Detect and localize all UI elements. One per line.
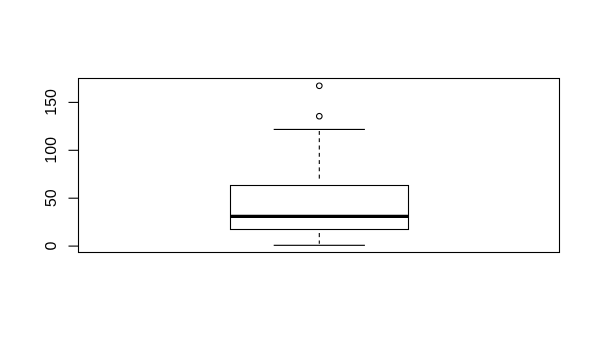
IQR box [231, 186, 409, 230]
y-axis tick 150 [69, 101, 79, 103]
lower whisker cap [274, 244, 365, 246]
svg-text:50: 50 [43, 189, 60, 207]
lower whisker dashed line [318, 233, 320, 244]
y-axis tick 0 [69, 245, 79, 247]
svg-text:0: 0 [43, 242, 60, 251]
outlier point 2 [317, 113, 323, 119]
y-axis tick 50 [69, 197, 79, 199]
upper whisker cap [274, 128, 365, 130]
upper whisker dashed line [318, 131, 320, 181]
svg-text:150: 150 [43, 89, 60, 116]
outlier point 1 [317, 83, 323, 89]
median line [230, 215, 409, 218]
svg-text:100: 100 [43, 137, 60, 164]
y-axis tick 100 [69, 149, 79, 151]
plot box frame [79, 79, 560, 253]
